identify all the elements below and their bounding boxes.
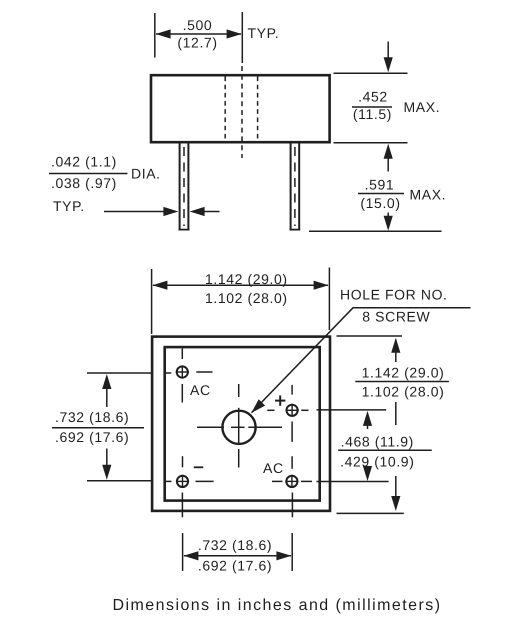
svg-text:(12.7): (12.7) bbox=[177, 34, 217, 50]
svg-text:.429 (10.9): .429 (10.9) bbox=[340, 454, 414, 470]
svg-text:1.142 (29.0): 1.142 (29.0) bbox=[205, 271, 288, 287]
svg-text:.468 (11.9): .468 (11.9) bbox=[341, 433, 414, 449]
svg-text:DIA.: DIA. bbox=[131, 166, 161, 182]
svg-text:Dimensions in inches and (mill: Dimensions in inches and (millimeters) bbox=[113, 597, 442, 614]
svg-text:.500: .500 bbox=[183, 17, 213, 33]
svg-text:(11.5): (11.5) bbox=[353, 106, 392, 122]
svg-text:.591: .591 bbox=[365, 177, 395, 193]
svg-text:HOLE FOR NO.: HOLE FOR NO. bbox=[340, 286, 448, 302]
svg-text:MAX.: MAX. bbox=[404, 99, 441, 115]
svg-text:1.102 (28.0): 1.102 (28.0) bbox=[205, 290, 288, 306]
svg-text:(15.0): (15.0) bbox=[360, 195, 400, 211]
svg-text:.732 (18.6): .732 (18.6) bbox=[198, 537, 272, 553]
svg-text:1.142 (29.0): 1.142 (29.0) bbox=[362, 365, 445, 381]
svg-text:.732 (18.6): .732 (18.6) bbox=[55, 409, 129, 425]
svg-text:.452: .452 bbox=[358, 89, 388, 105]
svg-text:MAX.: MAX. bbox=[410, 187, 447, 203]
svg-text:AC: AC bbox=[190, 382, 211, 398]
svg-text:.692 (17.6): .692 (17.6) bbox=[198, 558, 272, 574]
svg-text:AC: AC bbox=[263, 460, 284, 476]
svg-text:.692 (17.6): .692 (17.6) bbox=[55, 429, 129, 445]
svg-text:TYP.: TYP. bbox=[248, 25, 280, 41]
svg-text:1.102 (28.0): 1.102 (28.0) bbox=[362, 384, 445, 400]
svg-text:.038 (.97): .038 (.97) bbox=[51, 175, 117, 191]
svg-text:8 SCREW: 8 SCREW bbox=[362, 309, 430, 325]
svg-text:.042 (1.1): .042 (1.1) bbox=[51, 154, 117, 170]
svg-text:TYP.: TYP. bbox=[53, 198, 85, 214]
